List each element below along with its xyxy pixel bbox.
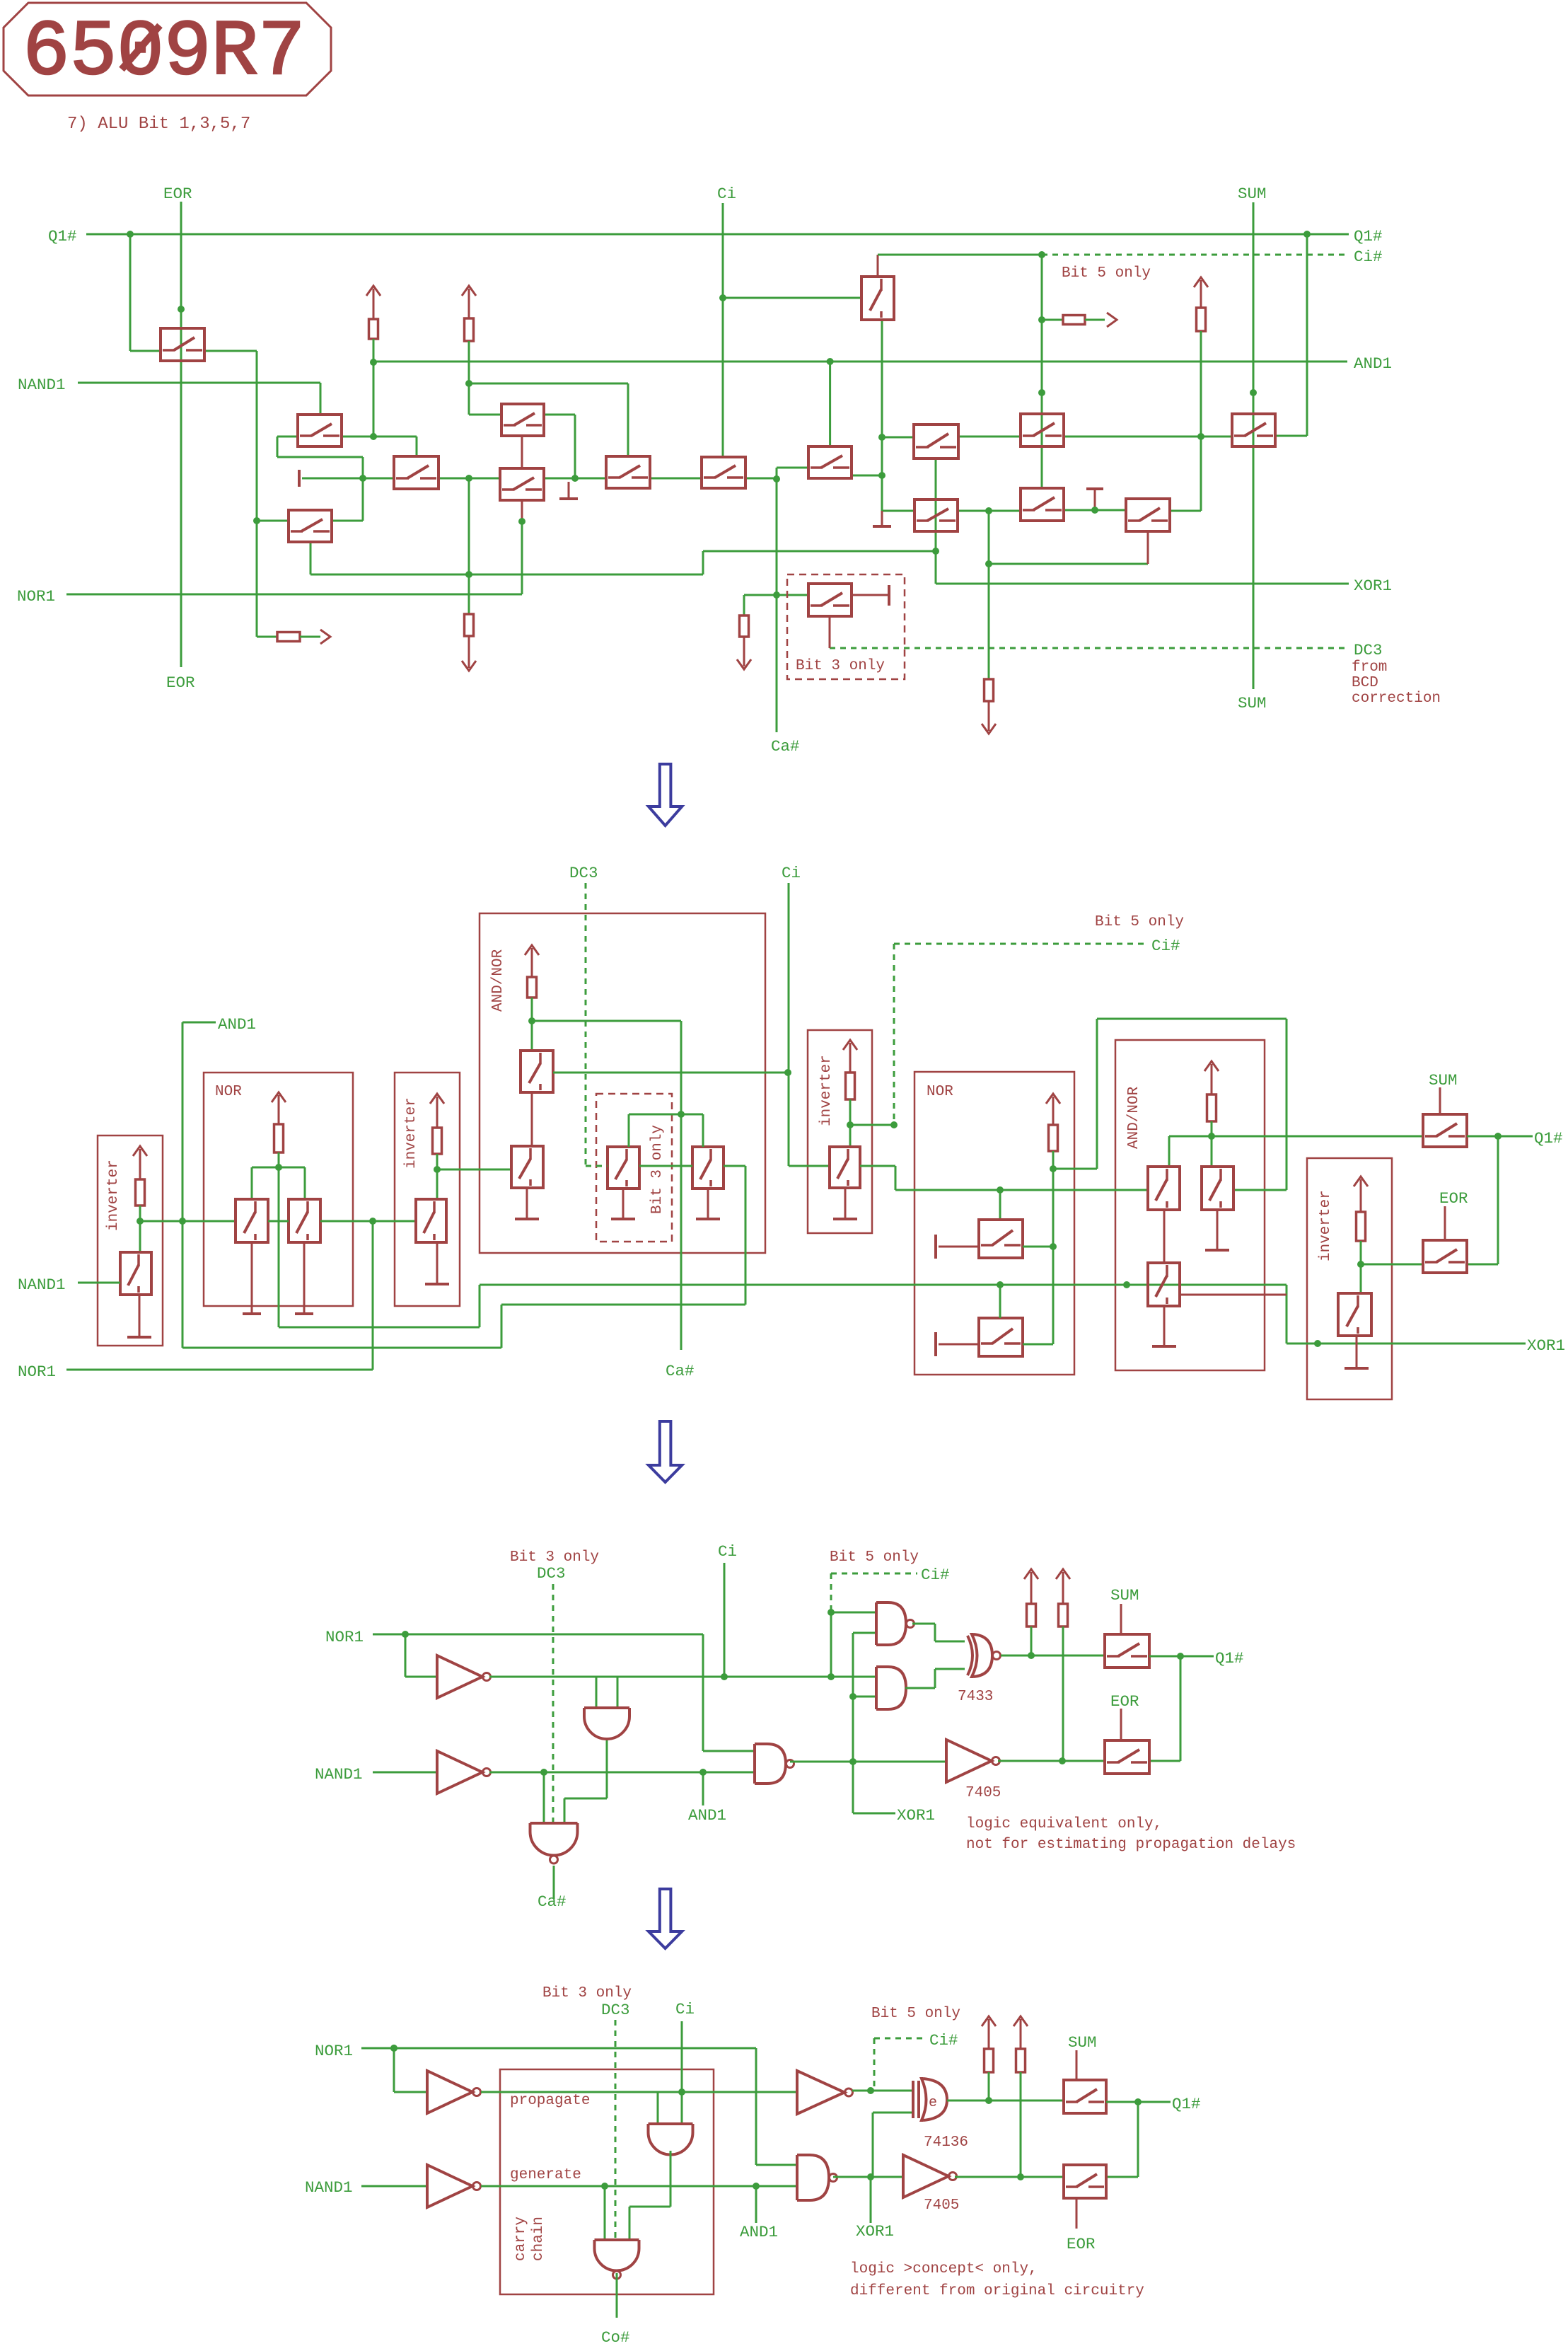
svg-text:XOR1: XOR1 (1527, 1336, 1565, 1355)
svg-text:different from original circui: different from original circuitry (850, 2283, 1144, 2299)
svg-text:DC3: DC3 (601, 2001, 630, 2019)
svg-text:logic equivalent only,: logic equivalent only, (966, 1816, 1162, 1832)
svg-text:Ci#: Ci# (1354, 248, 1383, 266)
svg-text:e: e (929, 2095, 937, 2111)
svg-text:Ci: Ci (718, 1542, 737, 1561)
svg-text:7405: 7405 (924, 2197, 959, 2214)
svg-text:Ci: Ci (782, 864, 801, 882)
svg-text:propagate: propagate (510, 2093, 590, 2109)
svg-text:NOR: NOR (927, 1084, 953, 1100)
svg-text:XOR1: XOR1 (1354, 577, 1392, 595)
svg-text:NAND1: NAND1 (18, 376, 66, 394)
svg-text:SUM: SUM (1110, 1586, 1139, 1605)
svg-text:NOR1: NOR1 (18, 1363, 56, 1381)
svg-text:Bit 5 only: Bit 5 only (830, 1549, 919, 1566)
svg-text:AND1: AND1 (688, 1806, 726, 1825)
svg-text:inverter: inverter (403, 1097, 419, 1169)
svg-text:74136: 74136 (924, 2134, 968, 2151)
svg-text:Bit 5 only: Bit 5 only (1095, 914, 1184, 930)
svg-text:DC3: DC3 (569, 864, 598, 882)
svg-text:SUM: SUM (1238, 185, 1267, 203)
svg-text:Bit 5 only: Bit 5 only (871, 2006, 960, 2022)
svg-text:Ci#: Ci# (921, 1566, 950, 1584)
svg-text:NOR1: NOR1 (315, 2042, 353, 2060)
svg-text:Bit 5 only: Bit 5 only (1062, 265, 1151, 282)
svg-text:AND1: AND1 (740, 2223, 778, 2241)
svg-text:inverter: inverter (818, 1055, 835, 1126)
svg-text:Bit 3 only: Bit 3 only (649, 1125, 666, 1214)
svg-text:6509R7: 6509R7 (23, 9, 306, 98)
svg-text:7405: 7405 (965, 1785, 1001, 1801)
svg-text:7433: 7433 (958, 1689, 993, 1705)
svg-text:DC3: DC3 (1354, 641, 1383, 659)
svg-text:NOR1: NOR1 (325, 1628, 364, 1646)
svg-text:AND1: AND1 (218, 1015, 256, 1034)
svg-text:inverter: inverter (105, 1160, 122, 1231)
svg-text:Bit 3 only: Bit 3 only (542, 1985, 632, 2001)
svg-text:Q1#: Q1# (1215, 1649, 1244, 1668)
svg-text:NOR1: NOR1 (17, 587, 55, 606)
svg-text:logic >concept< only,: logic >concept< only, (850, 2261, 1038, 2277)
svg-text:XOR1: XOR1 (897, 1806, 935, 1825)
svg-text:Ca#: Ca# (538, 1893, 567, 1911)
svg-text:7) ALU Bit 1,3,5,7: 7) ALU Bit 1,3,5,7 (67, 115, 250, 134)
svg-text:Bit 3 only: Bit 3 only (796, 658, 885, 674)
svg-text:EOR: EOR (163, 185, 192, 203)
svg-text:Ci: Ci (717, 185, 736, 203)
svg-text:chain: chain (530, 2217, 547, 2261)
svg-text:from: from (1352, 659, 1387, 676)
svg-text:EOR: EOR (1067, 2235, 1096, 2253)
svg-text:AND1: AND1 (1354, 354, 1392, 373)
svg-text:carry: carry (513, 2217, 529, 2261)
svg-text:Ci#: Ci# (1151, 937, 1180, 955)
svg-text:SUM: SUM (1238, 694, 1267, 712)
svg-text:AND/NOR: AND/NOR (1126, 1086, 1142, 1149)
svg-text:inverter: inverter (1318, 1190, 1334, 1261)
svg-text:BCD: BCD (1352, 675, 1378, 691)
svg-text:generate: generate (510, 2167, 581, 2183)
svg-text:DC3: DC3 (537, 1564, 566, 1583)
svg-text:AND/NOR: AND/NOR (490, 949, 506, 1012)
svg-text:SUM: SUM (1429, 1071, 1458, 1090)
svg-text:not for estimating propagation: not for estimating propagation delays (966, 1837, 1296, 1853)
svg-text:Ci#: Ci# (929, 2031, 958, 2050)
svg-text:EOR: EOR (1110, 1692, 1139, 1711)
svg-text:NAND1: NAND1 (305, 2178, 353, 2197)
svg-text:NAND1: NAND1 (18, 1276, 66, 1294)
svg-text:NAND1: NAND1 (315, 1765, 363, 1784)
svg-text:NOR: NOR (215, 1084, 242, 1100)
svg-text:Q1#: Q1# (1534, 1129, 1563, 1148)
svg-text:EOR: EOR (166, 674, 195, 692)
svg-text:Q1#: Q1# (48, 227, 77, 245)
svg-text:Bit 3 only: Bit 3 only (510, 1549, 599, 1566)
svg-text:SUM: SUM (1068, 2033, 1097, 2052)
svg-text:Q1#: Q1# (1172, 2095, 1201, 2113)
svg-text:XOR1: XOR1 (856, 2222, 894, 2241)
svg-text:Ca#: Ca# (771, 737, 800, 756)
svg-text:Co#: Co# (601, 2328, 630, 2346)
svg-text:correction: correction (1352, 690, 1441, 707)
svg-text:Ca#: Ca# (666, 1362, 695, 1380)
svg-text:Q1#: Q1# (1354, 227, 1383, 245)
svg-text:EOR: EOR (1439, 1189, 1468, 1208)
svg-text:Ci: Ci (675, 2000, 695, 2018)
